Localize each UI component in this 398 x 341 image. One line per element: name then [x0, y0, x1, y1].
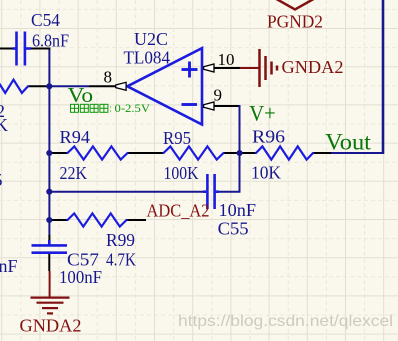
svg-text:9: 9: [214, 86, 223, 105]
svg-text:10nF: 10nF: [219, 200, 257, 220]
svg-text:4.7K: 4.7K: [106, 250, 136, 270]
svg-text:TL084: TL084: [124, 48, 171, 68]
svg-text:100nF: 100nF: [59, 267, 102, 287]
svg-text:U2C: U2C: [134, 29, 168, 49]
svg-text:10K: 10K: [251, 163, 281, 183]
svg-text:22K: 22K: [60, 163, 88, 183]
svg-text:R95: R95: [163, 128, 191, 148]
svg-text:C55: C55: [218, 219, 249, 239]
svg-text:K: K: [0, 115, 8, 135]
svg-text:GNDA2: GNDA2: [282, 57, 344, 77]
svg-text:R94: R94: [60, 127, 91, 147]
svg-text:C54: C54: [31, 10, 60, 30]
svg-text:6.8nF: 6.8nF: [32, 31, 69, 51]
svg-text:5: 5: [0, 170, 3, 190]
svg-text:PGND2: PGND2: [267, 12, 323, 32]
svg-text:R96: R96: [252, 127, 285, 147]
svg-text:Vout: Vout: [325, 129, 371, 154]
svg-text:8: 8: [104, 68, 113, 87]
svg-text:0-2.5V: 0-2.5V: [115, 103, 151, 115]
svg-text:R99: R99: [106, 230, 135, 250]
svg-text:ADC_A2: ADC_A2: [147, 200, 210, 220]
svg-text:Vo: Vo: [68, 83, 94, 107]
svg-text:https://blog.csdn.net/qlexcel: https://blog.csdn.net/qlexcel: [178, 313, 393, 330]
svg-text:V+: V+: [249, 100, 275, 125]
svg-text:10: 10: [218, 50, 235, 69]
svg-text:100K: 100K: [164, 163, 199, 183]
svg-text:00nF: 00nF: [0, 256, 18, 276]
svg-text:GNDA2: GNDA2: [20, 316, 82, 336]
